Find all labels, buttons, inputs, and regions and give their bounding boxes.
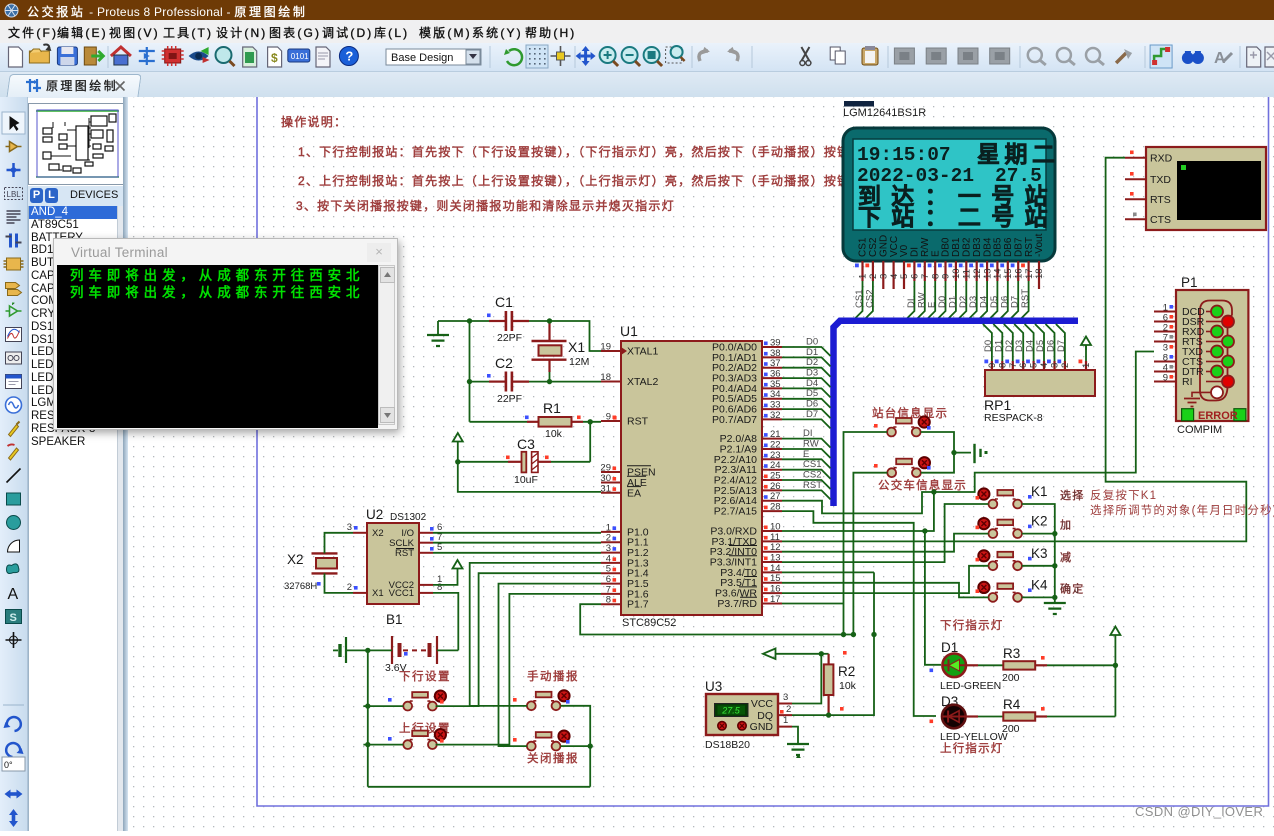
power arrow above RP1 pin1 xyxy=(1081,337,1091,362)
svg-text:加: 加 xyxy=(1060,519,1072,532)
svg-text:3: 3 xyxy=(1050,363,1061,368)
svg-text:RST: RST xyxy=(1020,289,1031,308)
svg-text:D2: D2 xyxy=(1004,340,1015,352)
wire to R2 top xyxy=(821,653,828,655)
svg-text:关闭播报: 关闭播报 xyxy=(527,751,579,765)
svg-text:4: 4 xyxy=(889,274,900,279)
svg-text:D1: D1 xyxy=(993,340,1004,352)
svg-text:29: 29 xyxy=(600,463,611,474)
svg-text:D1: D1 xyxy=(947,296,958,308)
capacitor C3 (electrolytic) xyxy=(458,436,590,486)
svg-text:14: 14 xyxy=(993,268,1004,279)
svg-text:RST: RST xyxy=(627,416,649,428)
push button 关闭播报 xyxy=(527,731,570,751)
svg-text:31: 31 xyxy=(600,483,611,494)
svg-text:10k: 10k xyxy=(545,428,563,440)
svg-text:27: 27 xyxy=(770,491,781,502)
svg-text:2: 2 xyxy=(347,582,352,593)
svg-text:RW: RW xyxy=(916,292,927,308)
svg-text:R4: R4 xyxy=(1003,697,1021,712)
small arrow marker below U3 ground xyxy=(796,754,801,758)
LED D3 yellow (off) xyxy=(930,694,1008,755)
svg-text:选择: 选择 xyxy=(1060,488,1084,502)
svg-text:9: 9 xyxy=(1163,373,1168,384)
svg-text:10k: 10k xyxy=(839,680,857,692)
U1 left pin labels xyxy=(627,346,658,611)
svg-text:LBL: LBL xyxy=(7,190,22,199)
svg-text:4: 4 xyxy=(1039,363,1050,368)
wires LCD pins to bus xyxy=(854,281,1029,320)
wires U2 to U1 P1.0-P1.2 xyxy=(433,532,601,534)
svg-text:K4: K4 xyxy=(1031,577,1048,592)
svg-text:11: 11 xyxy=(962,269,973,279)
svg-text:8: 8 xyxy=(997,363,1008,368)
svg-text:200: 200 xyxy=(1002,723,1020,735)
annotation: operation instructions xyxy=(281,114,943,213)
svg-text:34: 34 xyxy=(770,389,781,400)
svg-text:C3: C3 xyxy=(517,436,535,452)
svg-text:Base Design: Base Design xyxy=(391,52,453,64)
svg-text:22PF: 22PF xyxy=(497,332,522,344)
svg-text:P3.7/RD: P3.7/RD xyxy=(717,598,757,610)
svg-text:19: 19 xyxy=(600,342,611,353)
svg-text:17: 17 xyxy=(770,594,781,605)
svg-text:DB0: DB0 xyxy=(941,237,952,257)
svg-text:3: 3 xyxy=(347,522,352,533)
svg-text:确定: 确定 xyxy=(1060,581,1084,595)
svg-text:RP1: RP1 xyxy=(984,397,1011,413)
ground (near C1) xyxy=(427,321,449,346)
svg-text:7: 7 xyxy=(1008,363,1019,368)
svg-text:27.5: 27.5 xyxy=(721,706,741,716)
wires P1.3-P1.6 to buttons xyxy=(470,563,601,706)
svg-text:D5: D5 xyxy=(989,296,1000,308)
svg-text:RESPACK-8: RESPACK-8 xyxy=(984,412,1043,424)
svg-text:10: 10 xyxy=(770,522,781,533)
svg-text:7: 7 xyxy=(920,274,931,279)
RP1 D0-D7 net labels xyxy=(983,340,1067,352)
U2 pin stubs xyxy=(353,533,433,593)
svg-text:C2: C2 xyxy=(495,355,513,371)
svg-text:CS1: CS1 xyxy=(858,237,869,257)
resistor R3 xyxy=(966,646,1115,684)
wires info buttons xyxy=(844,432,888,635)
svg-text:9: 9 xyxy=(606,412,611,423)
temperature sensor U3 DS18B20 xyxy=(705,679,792,751)
svg-text:P0.7/AD7: P0.7/AD7 xyxy=(712,414,757,426)
LCD pin markers xyxy=(855,264,1025,268)
svg-text:-Vout: -Vout xyxy=(1034,233,1045,257)
svg-text:D4: D4 xyxy=(1025,340,1036,352)
svg-text:17: 17 xyxy=(1024,268,1035,279)
virtual terminal component (top right) xyxy=(1125,147,1266,230)
svg-text:A: A xyxy=(8,586,19,603)
svg-text:B1: B1 xyxy=(386,612,403,627)
svg-text:下站：二号站: 下站：二号站 xyxy=(858,204,1058,230)
LCD screen xyxy=(853,139,1046,230)
svg-text:RXD: RXD xyxy=(1150,153,1173,165)
svg-text:星期二: 星期二 xyxy=(977,141,1060,167)
crystal X1 xyxy=(532,323,590,382)
push button 上行设置 xyxy=(403,729,446,749)
svg-text:DI: DI xyxy=(906,299,917,309)
svg-text:RTS: RTS xyxy=(1150,194,1171,206)
svg-text:X2: X2 xyxy=(372,528,384,539)
svg-text:22PF: 22PF xyxy=(497,393,522,405)
svg-text:减: 减 xyxy=(1060,551,1072,564)
LCD pin numbers (rotated) xyxy=(858,268,1045,279)
svg-text:6: 6 xyxy=(910,274,921,279)
svg-text:37: 37 xyxy=(770,358,781,369)
svg-text:P1.7: P1.7 xyxy=(627,599,649,611)
svg-text:5: 5 xyxy=(437,542,442,553)
crystal X2 xyxy=(284,533,353,593)
svg-text:K2: K2 xyxy=(1031,514,1048,529)
svg-text:XTAL2: XTAL2 xyxy=(627,376,658,388)
U1 left pin stubs xyxy=(601,351,621,604)
push button K3 xyxy=(978,550,1022,570)
ground below K4 xyxy=(1044,603,1066,614)
svg-text:VCC: VCC xyxy=(751,698,774,710)
svg-text:32768H: 32768H xyxy=(284,581,317,592)
svg-text:DS18B20: DS18B20 xyxy=(705,739,750,751)
svg-text:D0: D0 xyxy=(983,340,994,352)
svg-text:10: 10 xyxy=(951,268,962,279)
svg-text:X2: X2 xyxy=(287,552,304,567)
wires K buttons right rail xyxy=(1022,504,1055,603)
net labels D0-D7 on P0 wires xyxy=(803,337,822,491)
svg-text:D3: D3 xyxy=(968,296,979,308)
ground cell left of battery xyxy=(333,637,392,663)
wire P3.7 to station display button net xyxy=(782,603,844,605)
wire C3 node to EA xyxy=(458,462,601,492)
wire U3 GND to ground xyxy=(792,727,798,744)
wire P2.6 to COMPIM TXD net xyxy=(782,492,934,513)
svg-text:U3: U3 xyxy=(705,679,722,694)
push button 手动播报 xyxy=(527,690,570,710)
svg-text:3: 3 xyxy=(783,692,788,703)
svg-text:CS2: CS2 xyxy=(868,237,879,257)
svg-text:R2: R2 xyxy=(838,664,855,679)
svg-text:DI: DI xyxy=(803,428,813,439)
wire U3 DQ xyxy=(792,572,874,715)
LCD pin labels (rotated) xyxy=(858,233,1045,257)
wire gnd to C1 xyxy=(438,320,470,322)
battery B1 3.6V xyxy=(385,612,437,674)
svg-text:D6: D6 xyxy=(1046,340,1057,352)
svg-text:CS2: CS2 xyxy=(864,290,875,308)
svg-text:D0: D0 xyxy=(937,296,948,308)
LCD LCD1 ref label (cropped) xyxy=(844,101,874,107)
svg-text:0101: 0101 xyxy=(291,52,309,61)
svg-text:8: 8 xyxy=(606,595,611,606)
svg-text:5: 5 xyxy=(899,274,910,279)
svg-text:16: 16 xyxy=(1013,268,1024,279)
svg-text:手动播报: 手动播报 xyxy=(527,669,579,683)
svg-text:D6: D6 xyxy=(999,296,1010,308)
LCD text xyxy=(857,144,1042,187)
wires right of manual buttons xyxy=(561,706,591,787)
U1 right pin labels xyxy=(710,342,758,611)
svg-text:GND: GND xyxy=(750,721,774,733)
svg-text:S: S xyxy=(10,612,17,624)
svg-text:DB5: DB5 xyxy=(993,237,1004,257)
svg-text:12M: 12M xyxy=(569,356,589,368)
svg-text:COMPIM: COMPIM xyxy=(1177,424,1222,436)
svg-text:1: 1 xyxy=(783,715,788,726)
svg-text:公交车信息显示: 公交车信息显示 xyxy=(878,478,967,492)
capacitor C2 xyxy=(470,355,602,405)
wire U3 VCC up xyxy=(792,654,821,704)
svg-text:D0: D0 xyxy=(806,337,818,348)
svg-text:D5: D5 xyxy=(806,388,818,399)
annotation K1 usage xyxy=(1090,488,1274,517)
resistor R4 xyxy=(966,697,1116,735)
svg-text:V0: V0 xyxy=(899,244,910,257)
svg-text:25: 25 xyxy=(770,471,781,482)
MCU U1 STC89C52 body xyxy=(620,323,762,629)
wire R1 down to C3 xyxy=(589,422,591,462)
svg-text:DB7: DB7 xyxy=(1013,237,1024,257)
wire net to U1 P3.0 xyxy=(782,492,934,531)
svg-text:6: 6 xyxy=(1018,363,1029,368)
svg-text:K1: K1 xyxy=(1031,484,1048,499)
svg-text:2: 2 xyxy=(1060,363,1071,368)
svg-text:XTAL1: XTAL1 xyxy=(627,346,658,358)
svg-text:D2: D2 xyxy=(958,296,969,308)
LCD LGM12641BS1R body xyxy=(843,128,1055,261)
left rail from battery to buttons xyxy=(368,650,590,786)
svg-text:下行指示灯: 下行指示灯 xyxy=(940,618,1004,632)
svg-text:2: 2 xyxy=(606,533,611,544)
svg-text:DS1302: DS1302 xyxy=(390,512,427,523)
svg-text:2: 2 xyxy=(868,274,879,279)
resistor R1 xyxy=(470,400,617,440)
svg-text:13: 13 xyxy=(770,553,781,564)
svg-text:18: 18 xyxy=(1034,268,1045,279)
svg-text:VCC1: VCC1 xyxy=(389,588,414,599)
wire P1.7 long horizontal xyxy=(580,604,853,634)
push button 下行设置 xyxy=(403,691,446,711)
wires bus to RP1 xyxy=(983,324,1065,361)
wires U1 P0/P2 to bus xyxy=(782,347,831,499)
svg-text:CS2: CS2 xyxy=(803,470,821,481)
svg-text:2: 2 xyxy=(786,704,791,715)
push button 站台信息显示 xyxy=(887,416,930,436)
svg-text:CSDN @DIY_lOVER: CSDN @DIY_lOVER xyxy=(1135,804,1263,819)
svg-text:K3: K3 xyxy=(1031,546,1048,561)
svg-text:ERROR: ERROR xyxy=(1198,410,1238,422)
push button 公交车信息显示 xyxy=(887,457,930,477)
push button K2 xyxy=(978,518,1022,538)
U1 right pin numbers xyxy=(770,338,781,606)
svg-text:9: 9 xyxy=(987,363,998,368)
svg-text:18: 18 xyxy=(600,372,611,383)
svg-text:$: $ xyxy=(271,51,278,65)
svg-text:U1: U1 xyxy=(620,323,638,339)
svg-text:19:15:07: 19:15:07 xyxy=(857,144,951,166)
sheet border xyxy=(257,97,1269,806)
svg-text:STC89C52: STC89C52 xyxy=(622,617,676,629)
svg-text:CTS: CTS xyxy=(1150,214,1171,226)
wire P3.1 to virtual terminal RXD xyxy=(782,158,1246,542)
svg-text:8: 8 xyxy=(437,582,442,593)
svg-text:1: 1 xyxy=(858,274,869,279)
push button K4 xyxy=(978,582,1022,602)
svg-text:D5: D5 xyxy=(1035,340,1046,352)
svg-text:DB3: DB3 xyxy=(972,237,983,257)
svg-text:DB1: DB1 xyxy=(951,237,962,257)
svg-text:下行设置: 下行设置 xyxy=(399,670,451,683)
resistor R2 xyxy=(824,654,857,715)
svg-text:上行指示灯: 上行指示灯 xyxy=(940,741,1004,755)
svg-text:RST: RST xyxy=(1024,237,1035,257)
svg-text:28: 28 xyxy=(770,502,781,513)
svg-text:D3: D3 xyxy=(1014,340,1025,352)
ground below U3 xyxy=(787,744,809,755)
RP1 pin numbers xyxy=(987,363,1092,368)
svg-text:反复按下K1: 反复按下K1 xyxy=(1090,488,1157,502)
svg-text:39: 39 xyxy=(770,338,781,349)
svg-text:15: 15 xyxy=(1003,268,1014,279)
push button K1 xyxy=(978,488,1022,508)
svg-text:10uF: 10uF xyxy=(514,474,538,486)
resistor pack RP1 xyxy=(984,370,1095,424)
wires K buttons left to U1 P3 xyxy=(782,504,988,562)
svg-text:E: E xyxy=(803,449,809,460)
wire C1 to XTAL1 xyxy=(550,321,602,351)
svg-text:21: 21 xyxy=(770,429,781,440)
U1 left pin numbers xyxy=(600,342,611,606)
wire P2.7 to LED D3 xyxy=(782,511,936,716)
wire VCC1 to battery xyxy=(433,593,458,651)
svg-text:U2: U2 xyxy=(366,507,383,522)
svg-text:操作说明：: 操作说明： xyxy=(281,114,347,129)
power rail right of R3/R4 xyxy=(1110,627,1120,717)
capacitor C1 xyxy=(470,294,550,344)
svg-text:DB2: DB2 xyxy=(962,237,973,257)
wires bottom buttons left terminals xyxy=(363,705,403,707)
power arrow VCC2 xyxy=(433,560,463,585)
svg-text:?: ? xyxy=(345,49,353,64)
virtual terminal window xyxy=(53,238,398,430)
svg-text:EA: EA xyxy=(627,487,641,499)
LCD pin stubs xyxy=(863,261,1040,289)
svg-text:D7: D7 xyxy=(1010,296,1021,308)
svg-text:VCC: VCC xyxy=(889,236,900,257)
svg-text:9: 9 xyxy=(941,274,952,279)
svg-text:CS1: CS1 xyxy=(854,290,865,308)
svg-text:DI: DI xyxy=(910,247,921,257)
svg-text:C1: C1 xyxy=(495,294,513,310)
svg-text:3、按下关闭播报按键，则关闭播报功能和清除显示并熄灭指示灯: 3、按下关闭播报按键，则关闭播报功能和清除显示并熄灭指示灯 xyxy=(296,198,675,213)
svg-text:P1: P1 xyxy=(1181,275,1198,290)
svg-text:LED-YELLOW: LED-YELLOW xyxy=(940,731,1008,743)
RTC U2 DS1302 body xyxy=(366,507,427,604)
svg-text:LED-GREEN: LED-GREEN xyxy=(940,680,1001,692)
svg-text:1: 1 xyxy=(1081,363,1092,368)
svg-text:15: 15 xyxy=(770,573,781,584)
RP1 pin stubs xyxy=(992,361,1086,370)
svg-text:23: 23 xyxy=(770,450,781,461)
svg-text:12: 12 xyxy=(972,268,983,279)
svg-text:D7: D7 xyxy=(1056,340,1067,352)
net labels on LCD wires xyxy=(854,289,1031,308)
svg-text:A: A xyxy=(1214,50,1226,67)
canvas background xyxy=(128,97,1274,831)
svg-text:P2.7/A15: P2.7/A15 xyxy=(714,506,757,518)
serial port P1 COMPIM xyxy=(1154,275,1248,436)
svg-text:TXD: TXD xyxy=(1150,174,1171,186)
data bus (blue) xyxy=(834,321,1079,506)
wire P3.0 to LED D1 xyxy=(925,531,941,665)
svg-text:RI: RI xyxy=(1182,376,1193,388)
svg-text:D2: D2 xyxy=(806,357,818,368)
svg-text:R/W: R/W xyxy=(920,237,931,257)
svg-text:X1: X1 xyxy=(568,339,585,355)
svg-text:R3: R3 xyxy=(1003,646,1020,661)
left power arrow xyxy=(763,649,821,660)
svg-text:X1: X1 xyxy=(372,588,384,599)
svg-text:5: 5 xyxy=(606,564,611,575)
svg-text:R1: R1 xyxy=(543,400,561,416)
svg-text:32: 32 xyxy=(770,410,781,421)
svg-text:5: 5 xyxy=(1029,363,1040,368)
U1 right pin stubs xyxy=(762,347,782,604)
svg-text:D7: D7 xyxy=(806,409,818,420)
LED D1 green xyxy=(930,640,1002,692)
svg-text:0°: 0° xyxy=(4,760,13,770)
svg-text:RST: RST xyxy=(803,480,822,491)
power arrow above C3 xyxy=(453,433,463,462)
svg-text:LGM12641BS1R: LGM12641BS1R xyxy=(843,107,926,119)
svg-text:DB6: DB6 xyxy=(1003,237,1014,257)
svg-text:200: 200 xyxy=(1002,672,1020,684)
wire C1-C2 left column xyxy=(469,321,471,422)
svg-text:RST: RST xyxy=(395,548,414,559)
svg-text:16: 16 xyxy=(770,584,781,595)
ground cell right of buttons xyxy=(975,444,988,463)
